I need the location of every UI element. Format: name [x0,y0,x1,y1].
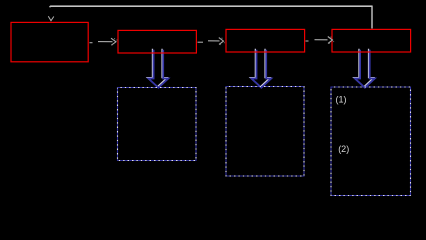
dashed box A (below stage 2) [118,88,197,161]
node arrowhead into box 1 (open V pointing down) [48,16,54,21]
block arrow 1 (hollow blue, down from box 2) [147,49,168,88]
block arrow 2 (hollow blue, down from box 3) [250,49,271,88]
block arrow 3 (hollow blue, down from box 4) [354,49,375,88]
dashed box B (below stage 3) [226,87,304,177]
wire connector box2 to box3 [198,38,225,46]
dashed box C (below stage 4) [331,87,411,196]
box 4 (red, stage 4) [332,29,411,52]
svg-text:(1): (1) [336,94,347,104]
wire feedback line from stage-4 box top to stage-1 box [50,6,373,29]
box 3 (red, stage 3) [226,29,305,52]
svg-text:(2): (2) [338,144,349,154]
box 1 (red, stage 1) [11,22,88,61]
wire connector box1 to box2 [90,38,118,45]
box 2 (red, stage 2) [118,30,196,53]
wire connector box3 to box4 [306,37,335,45]
